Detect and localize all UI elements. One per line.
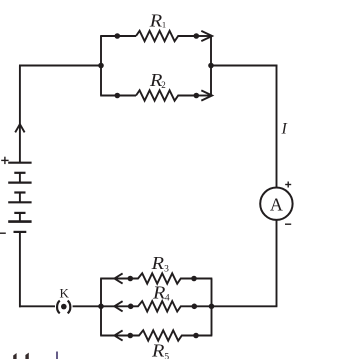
wire: R3 left lead xyxy=(100,278,130,280)
key K: label xyxy=(60,285,70,300)
resistor R2 zigzag xyxy=(136,90,196,100)
node dot R1 right xyxy=(194,33,200,39)
node dot R2 left xyxy=(115,93,121,99)
node: top-right junction dot xyxy=(208,63,214,69)
resistor R5 zigzag xyxy=(130,330,196,340)
key K: left contact arc xyxy=(57,301,60,314)
wire: bottom group right vertical bus xyxy=(211,279,213,336)
battery B1 cell1 long plate (+) xyxy=(8,162,31,164)
ammeter A: - terminal label xyxy=(285,223,291,225)
svg-text:R: R xyxy=(152,283,166,303)
label R2 xyxy=(149,70,166,90)
key K: right contact arc xyxy=(68,301,71,314)
wire: R5 left lead xyxy=(100,335,130,337)
current arrow on R4 (pointing left) xyxy=(114,301,122,311)
wire: right rail upper (top corner to ammeter +) xyxy=(276,65,278,188)
battery B1 cell3 short plate (-) xyxy=(14,212,25,214)
battery inter-cell connector 2-3 xyxy=(19,193,21,203)
svg-text:R: R xyxy=(151,341,165,359)
svg-text:K: K xyxy=(60,285,70,300)
wire: R4 left lead xyxy=(100,305,130,307)
node dot R3 left xyxy=(128,276,134,282)
node: top-left junction dot xyxy=(98,63,104,69)
label R1 xyxy=(149,10,166,30)
svg-text:1: 1 xyxy=(162,20,166,30)
svg-text:5: 5 xyxy=(164,352,169,359)
label I (circuit current) xyxy=(281,121,288,138)
svg-text:R: R xyxy=(149,10,163,30)
current arrow on R2 (pointing right) xyxy=(201,90,212,100)
current arrow on R5 (pointing left) xyxy=(114,330,122,340)
battery B1 cell2 long plate (+) xyxy=(8,182,31,184)
wire: right rail lower (ammeter - to bottom corner) xyxy=(276,220,278,306)
wire: R2 right lead xyxy=(196,95,212,97)
node: bottom-right junction dot xyxy=(209,304,215,310)
node dot R5 right xyxy=(193,333,199,339)
resistor R3 zigzag xyxy=(130,273,194,283)
node dot R2 right xyxy=(194,93,200,99)
wire: top-left horizontal xyxy=(19,65,101,67)
svg-text:A: A xyxy=(270,194,283,214)
battery inter-cell connector 3-4 xyxy=(19,213,21,222)
wire: left rail upper (battery + to top) xyxy=(19,66,21,163)
label R5 xyxy=(151,341,170,359)
svg-text:3: 3 xyxy=(164,264,169,274)
current arrow on R1 (pointing right) xyxy=(201,31,212,41)
resistor R1 zigzag xyxy=(136,31,196,41)
resistor R3 branch xyxy=(100,253,212,284)
battery inter-cell connector 1-2 xyxy=(19,173,21,183)
node dot R4 right xyxy=(192,304,198,310)
ammeter A: meter letter xyxy=(270,194,283,214)
node dot R1 left xyxy=(115,33,121,39)
battery B1: - terminal label xyxy=(0,232,6,234)
svg-text:4: 4 xyxy=(165,294,170,304)
key K: centre dot xyxy=(61,304,67,310)
current direction arrow (left rail, pointing up) xyxy=(15,124,24,132)
battery B1 cell2 short plate (-) xyxy=(14,191,25,193)
battery B1 cell1 short plate (-) xyxy=(14,172,25,174)
battery B1 cell3 long plate (+) xyxy=(8,201,31,203)
node dot R5 left xyxy=(128,333,134,339)
svg-text:R: R xyxy=(150,253,164,273)
wire: bottom group left vertical bus xyxy=(100,279,102,336)
wire: key to bottom parallel group xyxy=(73,305,101,307)
resistor R2 branch xyxy=(100,70,212,101)
node dot R3 right xyxy=(191,276,197,282)
wire: R1 left lead xyxy=(100,35,136,37)
node: bottom-left junction dot xyxy=(98,304,104,310)
node dot R4 left xyxy=(128,304,134,310)
wire: R2 left lead xyxy=(100,95,136,97)
svg-text:2: 2 xyxy=(161,80,166,90)
wire: R1 right lead xyxy=(196,35,212,37)
wire: R4 right lead xyxy=(194,305,212,307)
resistor R5 branch xyxy=(100,330,212,359)
wire: top group left vertical bus xyxy=(100,36,102,96)
wire: left rail lower (battery - to bottom) xyxy=(19,232,21,307)
svg-text:I: I xyxy=(281,121,288,138)
ammeter A: body circle xyxy=(260,188,292,220)
resistor R4 zigzag xyxy=(131,301,195,311)
label R3 xyxy=(150,253,169,275)
cropped caption text fragment (bottom edge) xyxy=(13,352,58,359)
battery B1: + terminal label xyxy=(1,157,8,164)
label R4 xyxy=(152,283,170,304)
ammeter A: + terminal label xyxy=(285,182,291,188)
wire: top group right vertical bus xyxy=(210,36,212,96)
battery B1 cell4 short plate (-) xyxy=(14,231,27,233)
wire: R5 right lead xyxy=(196,335,212,337)
wire: bottom-left horizontal to key xyxy=(19,305,55,307)
wire: R3 right lead xyxy=(194,278,212,280)
current arrow on R3 (pointing left) xyxy=(114,273,122,283)
resistor R1 branch xyxy=(100,10,212,41)
resistor R4 branch xyxy=(100,283,212,312)
battery B1 cell4 long plate (+) xyxy=(8,220,31,223)
wire: top-right horizontal xyxy=(211,65,277,67)
wire: bottom-right horizontal xyxy=(212,305,278,307)
